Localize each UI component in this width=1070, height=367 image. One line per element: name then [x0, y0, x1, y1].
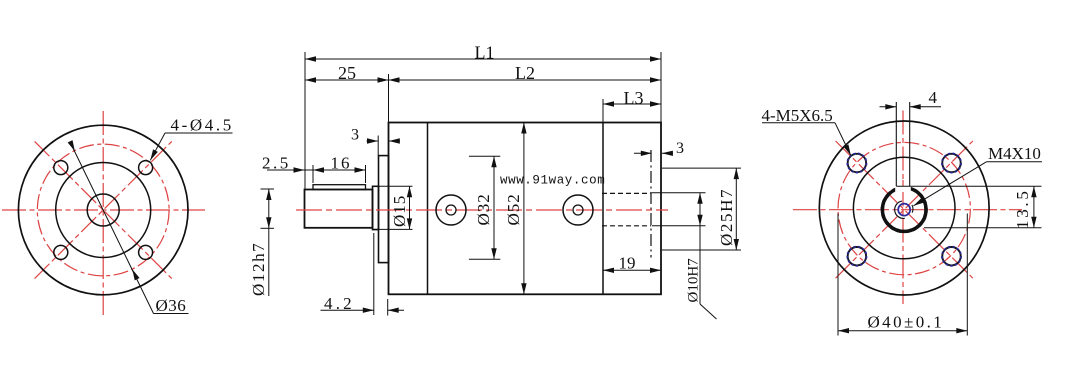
svg-text:Ø36: Ø36 — [156, 296, 187, 315]
label M4X10 — [912, 144, 1042, 208]
svg-text:3: 3 — [351, 127, 359, 144]
thread circle navy — [898, 204, 910, 216]
centerline diagonal 1 — [836, 141, 973, 278]
svg-text:19: 19 — [619, 254, 636, 273]
dimension L3 — [603, 88, 661, 108]
svg-text:Ø32: Ø32 — [474, 193, 493, 225]
M5 hole bottom-left — [847, 247, 866, 266]
dimension 4 — [880, 88, 942, 110]
svg-text:4-M5X6.5: 4-M5X6.5 — [762, 106, 833, 125]
extension line body-right — [660, 52, 662, 123]
main centerline — [296, 209, 668, 211]
hub ring scallop hint — [881, 186, 927, 232]
dimension 2.5 and 16 — [262, 154, 366, 184]
dimension dia25H7 — [662, 168, 741, 250]
hub ring notch whiteout — [895, 180, 911, 192]
extension line L3-left — [602, 99, 604, 123]
keyway centerline segment (red) — [902, 180, 904, 186]
shaft — [305, 190, 373, 228]
svg-text:www.91way.com: www.91way.com — [500, 174, 605, 188]
svg-text:L2: L2 — [515, 63, 535, 83]
thread circle black partial — [895, 201, 905, 218]
dimension dia32 — [469, 156, 500, 259]
dimension dia40 — [838, 214, 967, 336]
M5 hole top-right — [942, 153, 961, 172]
middle circle — [853, 157, 955, 259]
svg-text:16: 16 — [331, 154, 352, 173]
centerline diagonal 1 — [35, 141, 172, 278]
extension line body-left — [388, 74, 390, 123]
body outline — [389, 123, 662, 295]
centerline vertical — [102, 111, 104, 318]
dimension 13.5 — [924, 186, 1042, 229]
bolt hole top-right — [139, 161, 153, 175]
svg-text:13.5: 13.5 — [1013, 188, 1032, 229]
body division line 1 — [427, 123, 429, 295]
keyway notch lines — [895, 102, 897, 186]
hub ring — [882, 188, 926, 232]
label dia36 — [68, 140, 189, 315]
dimension dia12h7 — [249, 189, 274, 296]
bolt circle (red) — [838, 142, 970, 274]
dimension dia52 — [504, 123, 527, 295]
label 4-M5X6.5 — [762, 106, 854, 157]
bolt hole top-left — [54, 161, 68, 175]
svg-text:4-Ø4.5: 4-Ø4.5 — [171, 116, 234, 135]
svg-text:Ø40±0.1: Ø40±0.1 — [868, 313, 945, 332]
svg-text:4: 4 — [929, 88, 938, 107]
dimension 3 right — [634, 140, 684, 157]
dimension 3 left — [351, 127, 400, 156]
centerline vertical — [902, 111, 904, 305]
centerline diagonal 2 — [836, 141, 973, 278]
hidden bore line top — [602, 192, 651, 194]
svg-text:Ø52: Ø52 — [504, 193, 523, 225]
centerline horizontal — [2, 209, 205, 211]
M5 hole bottom-right — [942, 247, 961, 266]
dimension 19 — [603, 254, 661, 273]
centerline horizontal — [793, 209, 1022, 211]
13.5 top extension / notch bottom — [896, 185, 1041, 187]
port circle 1 — [436, 195, 466, 225]
dimension dia15 — [374, 186, 413, 229]
shaft key — [313, 185, 366, 190]
svg-text:3: 3 — [676, 140, 684, 157]
svg-text:L3: L3 — [624, 88, 644, 108]
svg-text:L1: L1 — [475, 43, 495, 63]
bolt hole bottom-left — [54, 245, 68, 259]
dimension dia10H7 — [652, 193, 717, 319]
M5 hole top-left — [847, 153, 866, 172]
outer flange circle — [819, 121, 989, 295]
svg-text:Ø12h7: Ø12h7 — [249, 242, 268, 296]
center bore circle — [87, 194, 119, 226]
body division line 2 — [602, 123, 604, 295]
label 4-dia4.5 — [148, 116, 234, 162]
dashdot recess depth line — [650, 150, 652, 258]
svg-text:25: 25 — [338, 63, 356, 83]
outer flange circle — [18, 125, 188, 295]
bolt circle (red) — [37, 144, 169, 276]
bolt hole bottom-right — [139, 245, 153, 259]
svg-text:Ø10H7: Ø10H7 — [686, 258, 702, 303]
svg-text:2.5: 2.5 — [262, 154, 291, 173]
front flange plate — [379, 156, 389, 263]
svg-text:Ø15: Ø15 — [390, 195, 409, 227]
middle circle — [56, 163, 151, 258]
svg-text:M4X10: M4X10 — [988, 144, 1041, 163]
centerline diagonal 2 — [35, 141, 172, 278]
svg-text:Ø25H7: Ø25H7 — [717, 188, 736, 246]
extension line shaft-left — [304, 52, 306, 190]
hidden bore line bottom — [602, 225, 651, 227]
dimension 25 and L2 — [305, 63, 661, 83]
dimension L1 — [305, 43, 661, 63]
shaft boss — [373, 186, 379, 229]
port circle 2 — [563, 195, 593, 225]
dimension 4.2 — [321, 233, 405, 316]
